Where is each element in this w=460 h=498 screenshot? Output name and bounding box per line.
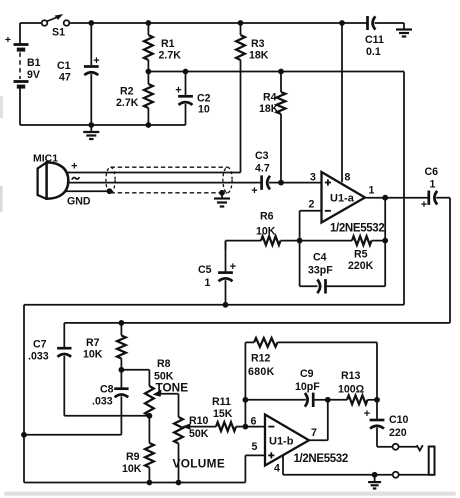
node pin8 rail — [339, 20, 345, 26]
resistor R11 15K — [212, 396, 245, 431]
svg-text:R1: R1 — [161, 38, 175, 50]
svg-text:10K: 10K — [256, 226, 276, 238]
svg-text:18K: 18K — [249, 50, 269, 62]
svg-text:0.1: 0.1 — [366, 46, 381, 58]
svg-text:1/2NE5532: 1/2NE5532 — [294, 453, 348, 465]
wire jack sleeve — [399, 474, 429, 476]
node R13-C10 — [374, 397, 380, 403]
svg-text:50K: 50K — [189, 428, 209, 440]
svg-text:7: 7 — [311, 427, 317, 439]
wire pin2 horiz — [300, 210, 322, 212]
svg-text:R2: R2 — [120, 86, 134, 98]
svg-text:3: 3 — [310, 172, 316, 184]
wire pin6 — [245, 426, 265, 428]
svg-text:R10: R10 — [189, 415, 209, 427]
op-amp U1-a — [322, 172, 366, 223]
svg-text:GND: GND — [67, 196, 91, 208]
svg-text:R7: R7 — [86, 337, 100, 349]
svg-text:C3: C3 — [255, 150, 269, 162]
wire output to C6 — [385, 197, 427, 199]
node R10 bottom — [176, 480, 182, 486]
svg-text:MIC1: MIC1 — [33, 153, 58, 165]
capacitor C1 47 — [90, 23, 92, 65]
wire R7-R8 link — [121, 369, 149, 371]
node pin2-R6-R5 — [297, 238, 303, 244]
svg-text:1: 1 — [205, 277, 211, 289]
ground shield — [221, 193, 223, 199]
capacitor C11 0.1 — [365, 16, 404, 58]
svg-text:1: 1 — [430, 179, 436, 191]
wire mic plus lead — [66, 172, 241, 174]
svg-text:R8: R8 — [157, 358, 171, 370]
scan artifact left edge 2 — [0, 186, 3, 212]
wire C8 to bias drop — [24, 434, 121, 436]
node output U1a — [382, 195, 388, 201]
wire mic signal lead — [68, 182, 257, 184]
svg-text:U1-a: U1-a — [330, 193, 355, 205]
svg-text:2: 2 — [309, 199, 315, 211]
svg-text:C4: C4 — [313, 252, 327, 264]
svg-text:C9: C9 — [300, 368, 314, 380]
wire pin3 — [281, 182, 322, 184]
wire pin4 down — [282, 456, 284, 475]
svg-text:47: 47 — [59, 72, 71, 84]
svg-text:+: + — [421, 199, 427, 211]
svg-text:U1-b: U1-b — [269, 436, 294, 448]
svg-text:R3: R3 — [251, 38, 265, 50]
resistor R1 2.7K — [144, 23, 181, 72]
wire output-R5 vertical — [384, 198, 386, 287]
node R4-C3-pin3 — [278, 180, 284, 186]
svg-text:6: 6 — [251, 416, 257, 428]
svg-text:+: + — [364, 408, 370, 420]
svg-text:TONE: TONE — [156, 381, 189, 395]
wire pin7 up — [327, 400, 329, 441]
op-amp U1-b — [265, 415, 309, 466]
node R4 top — [278, 69, 284, 75]
capacitor C10 220 — [364, 400, 409, 447]
svg-text:R12: R12 — [251, 353, 271, 365]
svg-text:10K: 10K — [122, 463, 142, 475]
svg-text:9V: 9V — [27, 69, 40, 81]
wire C10 to jack tip — [377, 446, 393, 448]
svg-text:S1: S1 — [52, 27, 65, 39]
svg-text:8: 8 — [345, 172, 351, 184]
resistor R5 220K — [300, 236, 386, 272]
svg-text:R13: R13 — [341, 370, 361, 382]
microphone MIC1 — [33, 153, 91, 208]
wire C6 corner down — [449, 198, 451, 323]
svg-text:2.7K: 2.7K — [116, 97, 139, 109]
capacitor C5 1 — [225, 241, 227, 272]
node C1 bottom — [88, 122, 94, 128]
svg-text:220: 220 — [389, 427, 407, 439]
svg-text:C7: C7 — [33, 339, 47, 351]
wire bias drop right — [403, 72, 405, 305]
node pin6 — [243, 424, 249, 430]
node R7 bottom — [119, 367, 125, 373]
node shield right — [219, 190, 225, 196]
resistor R6 10K — [226, 211, 300, 246]
ground C11 — [403, 23, 405, 30]
resistor R12 680K — [245, 338, 377, 400]
svg-text:1: 1 — [369, 185, 375, 197]
wire rail2 C2-R4 — [186, 71, 282, 73]
svg-text:2.7K: 2.7K — [159, 50, 182, 62]
node R8 bottom — [147, 413, 153, 419]
wire bias rail — [24, 304, 404, 306]
svg-text:R4: R4 — [263, 92, 277, 104]
wire pin7 — [309, 439, 328, 441]
svg-text:4.7: 4.7 — [255, 163, 270, 175]
svg-text:10: 10 — [198, 104, 210, 116]
node R3 top — [238, 20, 244, 26]
svg-text:R9: R9 — [126, 451, 140, 463]
ground output — [374, 475, 376, 482]
svg-text:10K: 10K — [83, 349, 103, 361]
svg-text:.033: .033 — [28, 351, 49, 363]
wire mic gnd lead — [66, 190, 110, 192]
svg-text:C6: C6 — [425, 166, 439, 178]
svg-text:+: + — [93, 55, 99, 67]
capacitor C9 10pF — [245, 399, 305, 401]
svg-text:R5: R5 — [354, 249, 368, 261]
svg-text:220K: 220K — [348, 260, 374, 272]
capacitor C2 10 — [185, 72, 187, 96]
node R2 bottom — [146, 122, 152, 128]
potentiometer R10 50K VOLUME — [173, 415, 226, 483]
resistor R13 100 — [328, 370, 377, 404]
svg-text:10pF: 10pF — [295, 381, 320, 393]
wire top rail pin8-C11 — [342, 22, 367, 24]
node C1 top — [88, 20, 94, 26]
wire pin2 down — [299, 211, 301, 241]
potentiometer R8 50K TONE — [145, 358, 188, 416]
wire switch to C1 node — [69, 22, 91, 24]
wire pin6 up to node A — [244, 400, 246, 427]
svg-text:+: + — [230, 261, 236, 273]
node R9 bottom — [147, 480, 153, 486]
node C8 tap — [21, 432, 27, 438]
svg-text:33pF: 33pF — [308, 265, 333, 277]
resistor R7 10K — [83, 323, 126, 370]
ground C1 rail — [90, 125, 92, 132]
wire ground rail top-left — [20, 124, 186, 126]
wire jack tip — [399, 446, 417, 448]
node gnd U1b — [372, 472, 378, 478]
wire rail2 R4-right — [281, 71, 404, 73]
capacitor C4 33pF — [300, 241, 386, 294]
jack J1 plug body — [429, 447, 435, 475]
svg-text:B1: B1 — [27, 57, 41, 69]
battery B1 — [5, 23, 41, 125]
node C5 bias — [223, 302, 229, 308]
svg-text:+: + — [251, 185, 257, 197]
wire rail2 R2-C2 — [148, 71, 185, 73]
scan artifact bottom — [4, 492, 456, 496]
jack J1 sleeve terminal — [393, 472, 399, 478]
node C9-R13-pin7 — [325, 397, 331, 403]
wire bias left drop — [23, 305, 25, 483]
wire pin8 to V+ — [341, 23, 343, 182]
resistor R9 10K — [122, 416, 154, 483]
svg-text:+: + — [5, 34, 11, 46]
svg-text:4: 4 — [274, 463, 280, 475]
wire R8 wiper to R10 — [178, 394, 180, 417]
wire pin4 to jack — [283, 474, 393, 476]
wire pin5 — [245, 454, 265, 456]
node R5 right — [382, 238, 388, 244]
wire top rail C1-R1 — [91, 22, 148, 24]
node A feedback — [243, 397, 249, 403]
svg-text:C11: C11 — [365, 34, 384, 46]
wire battery to switch — [20, 22, 42, 24]
node R7 top — [119, 320, 125, 326]
jack tip contact — [417, 445, 423, 450]
svg-text:VOLUME: VOLUME — [173, 457, 226, 471]
wire U1a output — [365, 197, 385, 199]
wire C7 bottom to R8 — [64, 415, 149, 417]
wire bottom bias rail — [24, 482, 245, 484]
svg-text:.033: .033 — [92, 396, 113, 408]
capacitor C8 .033 — [92, 370, 129, 435]
svg-text:C1: C1 — [57, 60, 71, 72]
svg-text:R11: R11 — [212, 396, 231, 408]
scan artifact left edge — [0, 96, 3, 118]
wire top rail R1-R3 — [148, 22, 240, 24]
wire pin5 down — [244, 455, 246, 482]
svg-text:18K: 18K — [259, 103, 279, 115]
capacitor C6 1 — [428, 197, 429, 199]
wire C5 from R6 — [225, 241, 227, 250]
node shield left — [107, 188, 113, 194]
capacitor C7 .033 — [28, 323, 72, 416]
jack J1 tip terminal — [393, 444, 399, 450]
resistor R2 2.7K — [116, 72, 153, 126]
capacitor C3 4.7 — [256, 182, 261, 184]
svg-text:+: + — [71, 161, 77, 173]
node C2 top — [183, 69, 189, 75]
svg-text:C10: C10 — [389, 414, 409, 426]
svg-text:C5: C5 — [198, 264, 212, 276]
svg-text:680K: 680K — [248, 366, 275, 378]
svg-text:5: 5 — [252, 441, 258, 453]
switch S1 — [42, 14, 70, 39]
cable shield dashed — [106, 167, 232, 193]
node R1-R2 — [146, 69, 152, 75]
wire top rail R3-pin8 — [241, 22, 343, 24]
svg-text:C8: C8 — [100, 384, 114, 396]
resistor R4 18K — [259, 72, 285, 183]
svg-text:100Ω: 100Ω — [338, 384, 365, 396]
svg-text:1/2NE5532: 1/2NE5532 — [330, 223, 384, 235]
resistor R3 18K — [236, 23, 269, 173]
svg-text:+: + — [175, 85, 181, 97]
svg-text:R6: R6 — [260, 211, 274, 223]
node R1 top — [146, 20, 152, 26]
svg-text:15K: 15K — [213, 408, 233, 420]
wire tone feed line — [64, 322, 450, 324]
